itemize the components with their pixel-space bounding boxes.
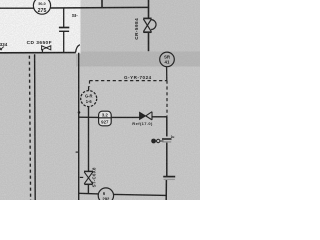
capacitor C3 plates [163, 176, 175, 178]
wire: below capacitor C1 [63, 32, 65, 53]
wire: from box to check valve [111, 116, 139, 118]
wire: stub below SR 41 [166, 67, 168, 81]
dashed drop to instrument G [89, 81, 91, 87]
wire: horizontal y117 [79, 116, 99, 118]
lower-right gray region [76, 67, 200, 201]
wire: corner down to capacitor C2 [166, 117, 168, 137]
solid vertical line left x35 [34, 54, 37, 200]
scan grain overlay [0, 0, 1, 1]
check valve (diode-like) symbol [140, 112, 146, 119]
wire: bottom horizontal left segment [79, 192, 99, 195]
capacitor C1 plates [59, 27, 69, 29]
valve CR-5984 hourglass symbol [143, 18, 156, 32]
base gray background [0, 0, 200, 200]
tick left of valve [80, 176, 83, 178]
wire: vertical at x148 from top edge [148, 0, 150, 18]
wire: below CR-5984 [148, 33, 150, 51]
tick on x78.5 wire [76, 151, 79, 153]
small open circle [157, 139, 160, 142]
corner mark below 334 [0, 47, 4, 51]
wire: bottom horizontal right segment [114, 194, 167, 195]
capacitor C2 plates [162, 138, 172, 140]
wire: below capacitor C2 [166, 143, 168, 176]
junction dot on x78.5 wire [78, 111, 81, 114]
light strip above top wire [81, 0, 102, 7]
wire: top horizontal right of circle to x148 [51, 6, 149, 9]
wire: below instrument G down to valve [88, 107, 90, 172]
dark gray band [76, 52, 200, 67]
valve ST-C6X8 hourglass symbol [84, 171, 93, 184]
dashed signal line horizontal y80.5 [90, 80, 168, 82]
wire: below capacitor C3 to bottom edge [165, 180, 167, 200]
wire: open circle to capacitor C2 [160, 140, 164, 142]
hook up at end of boundary line [42, 50, 43, 53]
top-right gray region [80, 0, 200, 52]
instrument circle bottom (cut at bottom edge) [98, 188, 113, 203]
instrument circle 275 (cut at top edge) [33, 0, 50, 14]
test point dot [151, 139, 156, 144]
instrument circle G-R 1-6 [81, 91, 97, 107]
wire: long vertical x78.5 with top curl [76, 45, 80, 53]
wire: vertical drop to capacitor C1 [63, 8, 65, 27]
boundary line under white strip [0, 52, 76, 54]
dashed vertical line left x30 [29, 56, 30, 200]
instrument circle SR 41 [160, 52, 175, 67]
mini bowtie symbol [42, 46, 51, 50]
instrument box 3.2 / 927 [99, 111, 112, 126]
dashed signal line vertical x167 [166, 81, 168, 117]
wire: top horizontal left of circle PI-275 [0, 7, 34, 9]
wire: below valve [87, 185, 89, 194]
white drawing area top-left [0, 0, 81, 54]
wire: stub above instrument G [88, 86, 90, 90]
wire: valve to corner x167 [152, 116, 167, 118]
wire: stub up at x102 [101, 0, 103, 8]
